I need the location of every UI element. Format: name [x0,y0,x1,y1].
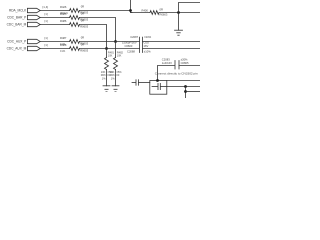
wire corner down to box, cap row C2083 [158,66,175,81]
svg-text:R0603: R0603 [160,13,168,17]
svg-text:R400: R400 [142,8,149,12]
wire from port CDC_AUX_M [40,48,69,50]
svg-text:0R: 0R [81,43,84,47]
wire row4 out [143,41,201,43]
capacitor left of box [132,80,150,85]
capacitor C2087 [140,37,143,45]
node dot at x178 [177,11,180,14]
svg-text:0R: 0R [81,36,84,40]
wire stub from top edge [131,0,133,13]
port CDC_BAR_M [27,22,40,26]
svg-text:10K: 10K [108,53,113,57]
wire vertical 185 to bottom edge [185,87,187,99]
svg-text:CDC_AUX_M: CDC_AUX_M [7,47,27,51]
wire R400 row [131,12,151,14]
svg-text:C0603: C0603 [125,44,133,48]
svg-text:RDA_MCLK: RDA_MCLK [9,9,27,13]
svg-text:[1]: [1] [45,43,48,47]
svg-text:R06: R06 [110,73,115,77]
ground GND at 178 [175,30,183,35]
svg-text:[1]: [1] [45,19,48,23]
wire box top right exit [167,80,200,82]
wire lower right exit [186,91,201,93]
wire row1 to junction [80,10,131,12]
wire from port RDA_MCLK [40,10,69,12]
svg-text:0R: 0R [160,7,163,11]
resistor R481 pulldown [105,58,109,70]
resistor R426 [70,9,80,13]
wire row4 to cap [80,41,140,43]
svg-text:R485: R485 [60,12,67,16]
wire vertical x178 with top corner exit [179,3,201,31]
ground below R481 [103,86,110,92]
resistor R485 [70,16,80,20]
svg-text:CDC_AUX_P: CDC_AUX_P [7,40,26,44]
svg-text:Connect directly to CN3302 pin: Connect directly to CN3302 pin [155,72,198,76]
wire cap row out right [179,65,200,67]
svg-text:R426: R426 [60,5,67,9]
wire stem pulldown R482 [115,70,117,86]
capacitor inside box [152,83,167,89]
svg-text:R486: R486 [60,19,67,23]
svg-text:±1%: ±1% [60,49,66,53]
resistor R482 pulldown [114,58,118,70]
wire from port CDC_BAR_P [40,17,69,19]
svg-text:R06: R06 [101,73,106,77]
wire from port CDC_BAR_M [40,24,69,26]
node junction dot row1 [129,9,132,12]
svg-text:±10%: ±10% [144,50,151,54]
ground below R482 [112,86,119,92]
wire vert x115 down [115,42,117,58]
svg-text:0R: 0R [81,12,84,16]
svg-text:[1]: [1] [45,36,48,40]
svg-text:0R: 0R [81,5,84,9]
svg-text:CDC_BAR_M: CDC_BAR_M [7,23,27,27]
svg-text:R487: R487 [60,36,67,40]
wire row5 to cap [80,48,140,50]
port CDC_AUX_M [27,46,40,50]
port RDA_MCLK [27,8,40,12]
node dot box top [156,79,159,82]
svg-text:R488: R488 [60,43,67,47]
node dot row3-vert joins row5 [105,47,108,50]
svg-text:C2087: C2087 [130,35,138,39]
wire row3 corner down x106 [80,25,107,49]
svg-text:16V: 16V [144,44,149,48]
capacitor C2088 [140,46,143,53]
wire stem pulldown R481 [106,70,108,86]
capacitor C2083 [175,61,179,70]
resistor R400 [150,11,159,15]
node dot 185 lower [184,90,187,93]
svg-text:CDC_BAR_P: CDC_BAR_P [7,16,26,20]
svg-text:1500pF/50V: 1500pF/50V [122,40,137,44]
svg-text:±10%: ±10% [144,35,151,39]
resistor R486 [70,23,80,27]
node dot row2-vert joins row4 [114,40,117,43]
svg-text:[1,4]: [1,4] [43,5,49,9]
resistor R488 [70,47,80,51]
svg-text:R0603: R0603 [80,49,88,53]
wire from port CDC_AUX_P [40,41,69,43]
wire row5 out [143,48,201,50]
svg-text:C2088: C2088 [127,50,135,54]
svg-text:1uF/16V: 1uF/16V [162,61,172,65]
svg-text:C0805: C0805 [181,61,189,65]
node dot 185 [184,85,187,88]
svg-text:0R: 0R [81,19,84,23]
wire vert x106 down [106,49,108,58]
wire box right exit [167,86,200,88]
box component outline [150,81,167,95]
svg-text:[1]: [1] [45,12,48,16]
port CDC_AUX_P [27,39,40,43]
port CDC_BAR_P [27,15,40,19]
resistor R487 [70,40,80,44]
wire row2 corner down x115 [80,18,116,42]
svg-text:R0603: R0603 [80,25,88,29]
svg-text:10K: 10K [117,53,122,57]
wire R400 out to right edge [159,12,200,14]
svg-text:C0G: C0G [144,40,150,44]
